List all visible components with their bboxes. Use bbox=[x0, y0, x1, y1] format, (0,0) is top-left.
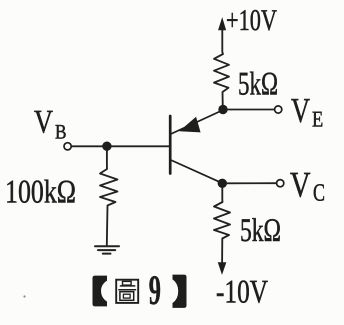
svg-text:V: V bbox=[290, 164, 311, 204]
svg-text:V: V bbox=[34, 105, 53, 141]
svg-text:9: 9 bbox=[149, 268, 161, 314]
svg-text:B: B bbox=[55, 121, 67, 143]
svg-text:100kΩ: 100kΩ bbox=[5, 174, 76, 210]
svg-text:-10V: -10V bbox=[216, 275, 268, 311]
svg-text:E: E bbox=[312, 107, 323, 132]
svg-text:C: C bbox=[313, 180, 325, 207]
svg-text:5kΩ: 5kΩ bbox=[240, 213, 281, 249]
svg-text:V: V bbox=[291, 91, 310, 130]
svg-text:5kΩ: 5kΩ bbox=[238, 66, 278, 102]
svg-text:+10V: +10V bbox=[226, 4, 277, 37]
